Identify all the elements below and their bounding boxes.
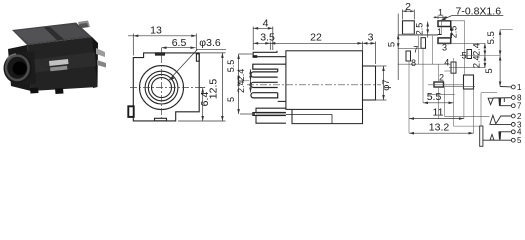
svg-text:5: 5	[226, 97, 236, 102]
svg-text:7: 7	[517, 102, 522, 111]
pad 4	[451, 62, 456, 73]
svg-text:3.5: 3.5	[260, 32, 275, 44]
photo left face	[8, 45, 31, 91]
ext line row 64	[398, 63, 452, 65]
ext line row pin5 top	[460, 55, 500, 57]
footprint extension grid	[398, 20, 500, 133]
photo front face	[27, 37, 98, 91]
photo top face shading	[14, 28, 57, 44]
svg-text:1: 1	[517, 83, 522, 92]
front view centerlines	[130, 56, 205, 119]
ext line row pad3 bottom	[438, 42, 485, 44]
wire pin3	[490, 123, 512, 125]
terminal 1	[511, 85, 515, 89]
svg-text:2.5: 2.5	[415, 23, 425, 36]
dim 13 extension lines	[132, 34, 134, 56]
side view skirt	[292, 109, 363, 123]
dim phi3.6 leader	[198, 48, 227, 50]
side view left plate	[253, 64, 286, 72]
ext line row pad7 bottom	[398, 47, 421, 49]
side view centerline	[247, 84, 381, 86]
svg-text:φ7: φ7	[381, 79, 392, 90]
front view body outline	[133, 53, 199, 121]
dim 2.5 left	[427, 22, 429, 38]
photo right face	[92, 37, 98, 88]
photo barrel hole	[13, 61, 27, 75]
svg-text:2.5: 2.5	[449, 26, 459, 39]
svg-text:13: 13	[150, 25, 162, 37]
front view barrel circles	[140, 66, 184, 110]
pad 1	[438, 21, 451, 27]
svg-text:5.5: 5.5	[427, 91, 442, 103]
dim 5.5/5 left chain	[239, 53, 253, 55]
side view	[251, 51, 376, 124]
photo barrel cylinder	[17, 51, 36, 84]
side view tooth pin 2	[251, 82, 278, 87]
dim 5.5 bottom	[423, 102, 454, 104]
ext col pad7	[422, 48, 424, 103]
wire pin1	[500, 86, 511, 88]
terminal 3	[511, 123, 515, 127]
ext line row 94	[428, 93, 455, 95]
side view bottom-left block	[253, 108, 286, 123]
svg-text:1: 1	[437, 27, 442, 37]
side view bottom pin	[254, 113, 286, 116]
front view top-right tab	[196, 54, 199, 61]
ext col pad4	[453, 58, 455, 103]
photo bottom legs	[30, 88, 39, 94]
svg-text:5.5: 5.5	[226, 60, 236, 73]
dim phi7 lines	[376, 65, 387, 67]
ext col pad2	[438, 64, 440, 82]
svg-text:5: 5	[484, 68, 495, 73]
svg-text:2: 2	[405, 1, 411, 13]
svg-text:2.4: 2.4	[472, 55, 482, 68]
ring contact zigzag	[490, 115, 496, 124]
side dim texts	[226, 18, 392, 103]
ext col pad8	[408, 61, 410, 134]
ext line row pin5 bottom	[449, 67, 485, 69]
pad 7	[421, 38, 426, 49]
dim 2.4 2.4 right	[484, 43, 486, 68]
dim 6.4 line	[199, 87, 205, 89]
svg-text:4: 4	[263, 18, 269, 30]
photo of jack component	[3, 21, 106, 95]
dim 5 left	[397, 14, 399, 81]
pad 5	[467, 50, 472, 59]
svg-text:2.4: 2.4	[472, 43, 482, 56]
front view bottom tab	[155, 118, 167, 121]
tip contact bar hook	[503, 98, 505, 102]
svg-text:2.4: 2.4	[236, 80, 246, 93]
photo back-right tab	[78, 21, 90, 29]
ext col 2.5 left	[418, 36, 420, 65]
dim 2.5 right	[451, 27, 453, 38]
svg-text:11: 11	[433, 107, 444, 119]
svg-text:5: 5	[517, 136, 522, 145]
side view tooth pin 3	[251, 93, 278, 98]
leader 7-0.8X1.6	[452, 15, 503, 17]
pad 2	[434, 82, 444, 87]
svg-text:6.5: 6.5	[172, 37, 187, 49]
terminal 5	[511, 138, 515, 142]
terminal 7	[511, 104, 515, 108]
photo body top face	[12, 23, 92, 46]
pad shield big	[403, 21, 415, 34]
svg-text:12.5: 12.5	[208, 79, 220, 100]
ext col bigpad left	[463, 89, 465, 119]
dim 2.4/2.4 teeth chain	[250, 69, 252, 92]
schematic pin numbers	[517, 83, 522, 145]
svg-text:22: 22	[310, 32, 322, 44]
svg-text:5: 5	[386, 42, 397, 47]
svg-text:1: 1	[438, 7, 443, 17]
ext line row pad2	[428, 84, 464, 86]
pad 3	[438, 38, 451, 44]
svg-text:7: 7	[413, 44, 418, 54]
dim 1 top	[437, 16, 439, 20]
svg-text:2: 2	[517, 112, 522, 121]
svg-text:φ3.6: φ3.6	[199, 37, 221, 49]
front view dimensions	[128, 34, 226, 122]
svg-text:8: 8	[411, 58, 416, 68]
wire pin5	[483, 139, 511, 141]
tip contact triangle	[488, 98, 493, 104]
terminal 8	[511, 96, 515, 100]
dim 5.5 / 5 right chain	[499, 30, 501, 87]
photo right pins	[96, 48, 105, 57]
wire pin7	[500, 105, 512, 107]
ext col bigpad right	[473, 89, 475, 133]
svg-text:5.5: 5.5	[486, 31, 497, 44]
svg-text:2.4: 2.4	[236, 69, 246, 82]
side view barrel	[363, 66, 376, 100]
svg-text:13.2: 13.2	[429, 122, 450, 134]
NC post 7-8	[499, 98, 501, 105]
pad bottom big	[464, 75, 474, 89]
side view tooth pin 1	[251, 72, 278, 77]
wire pin8	[493, 97, 511, 99]
dim 11 bottom	[409, 118, 464, 120]
sleeve contact triangle	[490, 135, 494, 141]
front view	[128, 53, 199, 121]
terminal 2	[511, 114, 515, 118]
front dim texts	[150, 25, 221, 107]
ext line row big pad bottom	[398, 33, 442, 35]
svg-text:7-0.8X1.6: 7-0.8X1.6	[456, 5, 502, 17]
wire pin4	[500, 131, 512, 133]
footprint texts	[386, 1, 501, 134]
svg-text:5: 5	[461, 51, 466, 61]
sleeve bar	[480, 126, 483, 146]
bottom view footprint	[403, 21, 474, 89]
ext col 432	[432, 36, 434, 65]
dim 13 line	[128, 35, 196, 37]
dim 6.5 line	[162, 47, 196, 49]
pad 8	[406, 51, 411, 61]
divider tick between stacked dims	[238, 80, 250, 82]
footprint dimensions	[397, 10, 513, 135]
schematic	[444, 85, 515, 146]
svg-text:2: 2	[439, 73, 444, 83]
photo barrel front rim	[3, 53, 32, 83]
front view top tab	[156, 53, 165, 55]
ext line row pad1 top	[438, 20, 465, 22]
wire pin2	[496, 116, 511, 124]
link line pin2	[444, 87, 497, 126]
NC post 4-5	[499, 132, 501, 139]
ext line row 71	[444, 70, 451, 72]
dim 2 top-left	[402, 10, 404, 20]
side view body	[286, 51, 363, 110]
dim 13.2 bottom	[409, 132, 474, 134]
svg-text:3: 3	[442, 43, 447, 53]
svg-text:4: 4	[444, 58, 449, 68]
dim 12.5 line	[199, 52, 225, 54]
side view dimensions	[237, 27, 386, 115]
dim 4 line	[252, 27, 254, 51]
photo front face shading	[30, 52, 96, 73]
terminal 4	[511, 130, 515, 134]
front view left tab	[128, 106, 133, 117]
ext line row bigpad bottom	[444, 86, 475, 88]
ext line row mid35	[398, 35, 438, 37]
photo terminal slots	[49, 59, 69, 66]
ext col 441	[441, 20, 443, 34]
svg-text:3: 3	[368, 32, 374, 44]
dim 3.5 / 22 / 3 line	[269, 42, 271, 51]
side view top-left tab	[253, 51, 286, 57]
